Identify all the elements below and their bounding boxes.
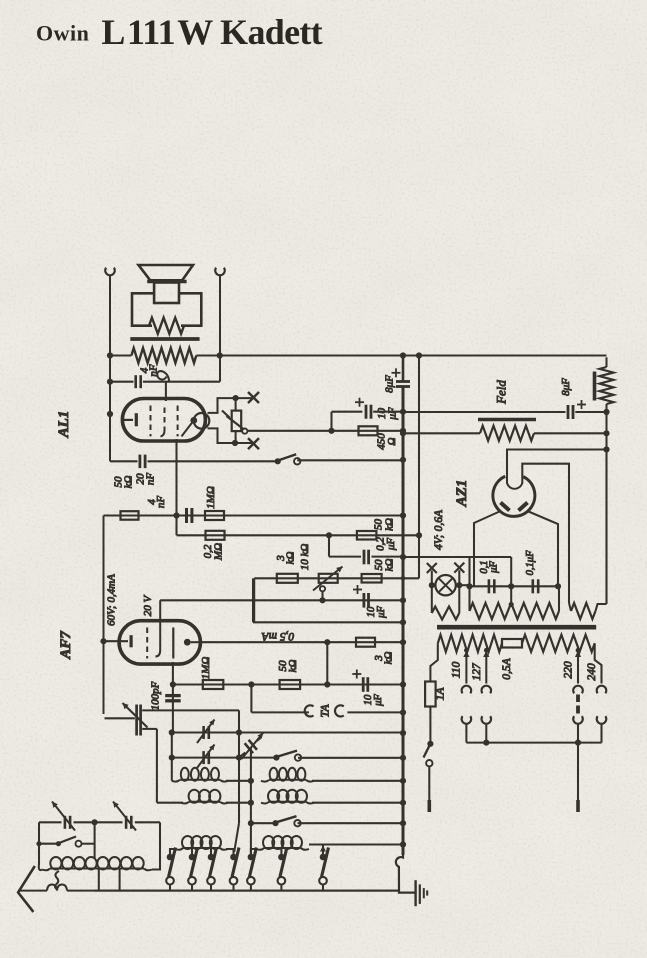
AZ1 filament leads — [474, 512, 500, 587]
wire AL1 blip upper — [208, 398, 253, 413]
svg-text:8μF: 8μF — [384, 375, 396, 393]
oscillator block left — [38, 822, 40, 843]
ground — [414, 880, 416, 906]
heater 0,1uF row — [470, 585, 559, 587]
AF7 grid exit — [172, 662, 174, 734]
row G 1M 50k 10uF — [173, 683, 403, 685]
trimmer T1 — [202, 726, 205, 739]
fuse 0,5A — [502, 639, 522, 648]
choke field core bar — [593, 372, 597, 401]
capacitor 8uF right — [403, 411, 566, 413]
terminal right speaker — [215, 268, 225, 276]
x-mark top — [248, 392, 259, 403]
tap 127 — [484, 648, 489, 653]
right HV winding — [571, 603, 596, 619]
row C left loop down — [253, 578, 255, 622]
svg-text:μF: μF — [385, 538, 397, 552]
capacitor 8uF on bus — [396, 380, 410, 383]
AF7 anode dot — [184, 639, 191, 646]
wire lamp feed row — [403, 556, 511, 558]
svg-text:kΩ: kΩ — [285, 552, 297, 565]
antenna — [18, 866, 35, 912]
svg-text:TA: TA — [318, 704, 332, 718]
trimmer T2 diagonal — [245, 740, 257, 753]
wire row B to lamp region — [403, 556, 470, 558]
lamp winding — [431, 585, 433, 613]
svg-text:240: 240 — [586, 663, 598, 681]
svg-text:Ω: Ω — [386, 437, 398, 445]
wiper drop — [320, 586, 325, 591]
field coil winding — [403, 432, 480, 434]
tube AZ1 — [493, 476, 535, 516]
row C 3k / pot 10k / 50k — [254, 577, 419, 579]
coil tap loops — [55, 871, 59, 890]
AL1 cathode — [122, 419, 133, 421]
svg-text:nF: nF — [145, 473, 157, 486]
bus hook and ground lead — [396, 855, 416, 893]
output transformer core — [130, 337, 199, 341]
trimmer T4 — [64, 816, 67, 829]
padder capacitor — [135, 705, 138, 736]
switch NF — [275, 458, 281, 464]
svg-text:220: 220 — [563, 661, 575, 679]
heater winding — [468, 586, 470, 611]
wire right speaker drop — [219, 275, 221, 382]
wire anode row to bus — [109, 354, 131, 356]
x-mark bottom — [248, 438, 259, 449]
switch osc — [36, 841, 41, 846]
svg-text:127: 127 — [471, 662, 483, 681]
coil row 782 — [172, 780, 180, 782]
svg-text:kΩ: kΩ — [384, 518, 396, 531]
tap 220 — [576, 648, 581, 653]
svg-text:0,1μF: 0,1μF — [525, 550, 536, 575]
capacitor 10uF with plus — [330, 412, 332, 431]
capacitor 10uF-2 — [362, 593, 365, 608]
field coil core bar — [478, 418, 536, 421]
svg-text:nF: nF — [155, 496, 167, 509]
AZ1 plates — [501, 503, 510, 511]
resistor 450 Ohm — [359, 426, 378, 435]
voltage selector sockets lower — [462, 716, 472, 724]
wire wiper to 450ohm row — [247, 430, 403, 432]
svg-text:Feld: Feld — [494, 380, 509, 405]
svg-text:110: 110 — [451, 662, 463, 679]
tap 110 — [464, 648, 469, 653]
svg-text:MΩ: MΩ — [213, 543, 225, 561]
antenna line vertical links — [98, 869, 100, 891]
output transformer primary winding — [131, 348, 196, 363]
voice coil resistor — [149, 318, 184, 334]
svg-text:1MΩ: 1MΩ — [200, 657, 212, 680]
svg-text:20 V: 20 V — [142, 594, 154, 616]
tap 240 end — [595, 652, 602, 684]
svg-text:kΩ: kΩ — [123, 476, 135, 489]
bottom common wire — [95, 890, 399, 892]
tube AF7 — [119, 621, 200, 664]
row 2 — [171, 733, 173, 781]
row F anode 0,5mA / 3k — [202, 641, 403, 643]
mains switch — [427, 741, 433, 747]
capacitor 100pF — [165, 694, 181, 697]
svg-text:μF: μF — [387, 407, 399, 421]
row A 0,2M / 50k — [177, 534, 420, 536]
capacitor 4nF top — [110, 381, 134, 383]
row B 0,2uF — [328, 535, 330, 556]
tube AL1 — [122, 399, 205, 442]
AF7 screen line — [156, 600, 161, 656]
capacitor 0,1uF left — [488, 579, 491, 593]
svg-text:10 kΩ: 10 kΩ — [299, 544, 311, 571]
potentiometer 10k volume — [319, 574, 338, 583]
speaker LS — [139, 265, 194, 280]
wire AZ1 anode 1 — [507, 450, 607, 484]
svg-text:AF7: AF7 — [58, 631, 74, 660]
wire top to right edge — [605, 357, 607, 367]
trimmer T3 — [202, 751, 205, 764]
mains lead 2 — [577, 743, 579, 800]
wire AZ1 anode 2 — [522, 464, 569, 603]
rail left lower — [103, 516, 105, 715]
AL1 anode exit bottom — [175, 439, 177, 516]
bus second — [418, 356, 420, 536]
AF7 grid dashes — [146, 628, 148, 659]
svg-text:0,5A: 0,5A — [501, 657, 513, 679]
svg-text:0,5 mA: 0,5 mA — [261, 630, 295, 642]
grid row: 50k, 4nF, 1M — [104, 514, 404, 516]
row H TA input — [250, 685, 252, 713]
switch band 2 — [250, 748, 252, 858]
band switch contacts — [167, 854, 174, 861]
svg-text:kΩ: kΩ — [287, 660, 299, 673]
svg-text:100pF: 100pF — [150, 681, 162, 710]
svg-text:AL1: AL1 — [56, 411, 72, 439]
row 1 osc — [156, 729, 158, 803]
wire grid AL1 — [165, 382, 167, 401]
grid hook loop — [157, 371, 169, 382]
resistor speaker-field right — [600, 367, 614, 404]
big oscillator coil — [42, 869, 50, 871]
svg-text:4V; 0,6A: 4V; 0,6A — [433, 509, 445, 550]
switch band 1 — [273, 755, 279, 761]
fuse 1A — [430, 652, 437, 682]
AL1 grid dashes — [150, 406, 152, 437]
coil row 803 — [157, 802, 183, 804]
trimmer T5 — [125, 816, 128, 829]
svg-text:μF: μF — [376, 606, 387, 619]
svg-text:8μF: 8μF — [560, 378, 572, 396]
wire left rail upper — [109, 275, 111, 461]
selector common wire — [466, 742, 601, 744]
svg-text:kΩ: kΩ — [383, 652, 395, 665]
svg-text:AZ1: AZ1 — [454, 480, 470, 508]
svg-text:kΩ: kΩ — [384, 559, 396, 572]
AF7 cathode — [104, 640, 129, 642]
row E — [253, 621, 403, 623]
heater center tap — [509, 602, 514, 607]
AF7 anode plate — [172, 628, 174, 659]
plug bridge 220 — [576, 695, 580, 703]
lamp x-marks — [427, 563, 437, 573]
row D screen feed — [160, 599, 403, 601]
AL1 grid-cap blip — [194, 413, 210, 429]
svg-text:60V; 0,4mA: 60V; 0,4mA — [106, 574, 118, 626]
wire AL1 blip lower — [208, 428, 253, 443]
terminal left speaker — [105, 268, 115, 276]
svg-text:μF: μF — [489, 561, 500, 574]
transformer core — [437, 625, 596, 630]
svg-text:1A: 1A — [435, 687, 447, 701]
svg-text:μF: μF — [373, 694, 384, 707]
primary winding right — [522, 635, 595, 652]
bottom left coil row — [175, 848, 183, 850]
antenna coupling loops — [47, 885, 67, 891]
speaker magnet box — [132, 293, 201, 325]
voltage selector sockets upper — [462, 686, 472, 694]
lamp — [431, 571, 433, 586]
bottom right coil row — [256, 848, 264, 850]
capacitor 0,1uF right — [531, 579, 534, 593]
svg-text:1MΩ: 1MΩ — [205, 486, 217, 509]
bus main B+ — [402, 356, 405, 382]
capacitor 20nF — [110, 460, 138, 462]
potentiometer tone — [235, 398, 237, 411]
primary winding left — [437, 643, 439, 652]
